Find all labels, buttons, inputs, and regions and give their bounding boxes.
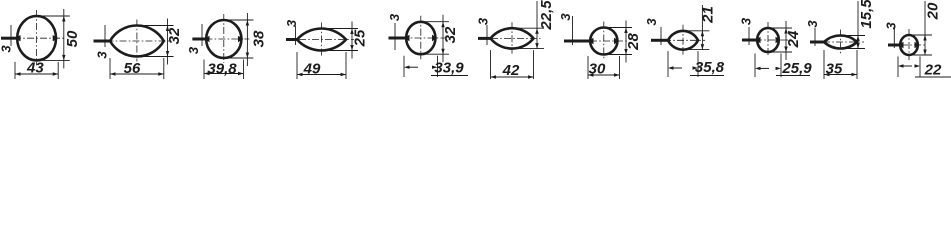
- svg-text:15,5: 15,5: [858, 0, 875, 29]
- section 7: left fairing tab: [588, 38, 594, 44]
- section 11: stem wire: [888, 44, 900, 47]
- section 1: height dimension 50: [41, 15, 70, 17]
- section 5: oval frame section outline: [406, 22, 435, 54]
- section 9: left fairing tab: [755, 37, 761, 43]
- section 9: horizontal centreline: [742, 39, 788, 41]
- section 1: stem wire: [1, 37, 17, 40]
- svg-text:56: 56: [124, 60, 141, 77]
- section 8: lens strut section outline: [668, 31, 698, 50]
- section 3: oval frame section outline: [206, 20, 241, 58]
- svg-text:25,9: 25,9: [781, 60, 812, 77]
- section 9: vertical centreline: [767, 22, 769, 57]
- section 3: right fairing tab: [238, 36, 244, 42]
- svg-text:35,8: 35,8: [695, 59, 725, 76]
- section 10: thickness dimension line 3: [814, 28, 816, 46]
- section 2: vertical centreline: [136, 20, 138, 62]
- svg-text:3: 3: [739, 17, 754, 25]
- section 1: vertical centreline: [36, 10, 38, 65]
- svg-text:32: 32: [442, 26, 459, 43]
- svg-text:3: 3: [95, 51, 110, 59]
- section 1: horizontal centreline: [1, 37, 66, 39]
- section 5: right fairing tab: [432, 35, 438, 41]
- section 9: stem wire: [742, 39, 757, 42]
- section 3: height dimension 38: [228, 19, 254, 21]
- svg-text:3: 3: [644, 18, 659, 26]
- section 8: width dimension 35,8: [667, 51, 669, 77]
- svg-text:24: 24: [785, 30, 802, 48]
- svg-text:50: 50: [64, 30, 81, 47]
- section 5: vertical centreline: [420, 16, 422, 60]
- svg-text:3: 3: [387, 13, 402, 21]
- section 4: height dimension 25: [326, 28, 359, 30]
- section 2: stem wire: [94, 40, 113, 43]
- svg-text:22: 22: [924, 62, 942, 79]
- section 10: stem wire: [810, 41, 826, 44]
- section 2: height dimension 32: [141, 25, 174, 27]
- svg-text:21: 21: [700, 6, 717, 24]
- section 10: horizontal centreline: [810, 41, 864, 43]
- section 9: oval frame section outline: [757, 28, 779, 52]
- section 9: width dimension 25,9: [754, 54, 756, 78]
- section 5: width dimension 33,9: [403, 56, 405, 77]
- section 10: width dimension 35: [823, 50, 825, 79]
- section 6: thickness dimension line 3: [486, 25, 488, 45]
- section 11: thickness dimension line 3: [893, 26, 895, 48]
- svg-text:30: 30: [589, 61, 606, 78]
- section 10: height dimension 15,5: [845, 35, 866, 37]
- section 1: left fairing tab: [15, 35, 21, 41]
- section 1: width dimension 43: [14, 62, 16, 79]
- svg-text:25: 25: [352, 29, 369, 47]
- svg-text:3: 3: [558, 13, 573, 21]
- section 6: width dimension 42: [490, 50, 492, 79]
- section 5: height dimension 32: [425, 21, 449, 23]
- section 8: thickness dimension line 3: [660, 27, 662, 45]
- section 7: vertical centreline: [603, 22, 605, 60]
- section 11: horizontal centreline: [888, 44, 927, 46]
- svg-text:28: 28: [625, 33, 642, 51]
- section 3: vertical centreline: [223, 14, 225, 63]
- section 5: horizontal centreline: [389, 37, 446, 39]
- section 7: thickness dimension line 3: [572, 16, 574, 45]
- section 11: width dimension 22: [897, 57, 899, 78]
- section 2: horizontal centreline: [94, 40, 170, 42]
- svg-text:3: 3: [284, 19, 299, 27]
- section 6: stem wire: [478, 37, 493, 40]
- section 3: width dimension 39,8: [203, 60, 205, 80]
- svg-text:35: 35: [826, 61, 843, 78]
- section 3: horizontal centreline: [192, 38, 249, 40]
- svg-text:3: 3: [186, 46, 201, 54]
- section 11: right fairing tab: [915, 42, 921, 48]
- section 5: stem wire: [389, 37, 407, 40]
- section 6: horizontal centreline: [478, 37, 541, 39]
- svg-text:3: 3: [0, 45, 14, 53]
- section 2: width dimension 56: [109, 58, 111, 79]
- svg-text:3: 3: [805, 20, 820, 28]
- section 4: stem wire: [286, 38, 299, 41]
- section 11: height dimension 20: [913, 34, 932, 36]
- section 6: height dimension 22,5: [516, 27, 544, 29]
- svg-text:49: 49: [303, 61, 321, 78]
- section 3: left fairing tab: [204, 36, 210, 42]
- section 10: vertical centreline: [840, 30, 842, 54]
- svg-text:22,5: 22,5: [538, 0, 555, 31]
- section 5: thickness dimension line 3: [394, 23, 396, 50]
- svg-text:43: 43: [26, 60, 44, 77]
- section 8: stem wire: [651, 39, 670, 42]
- section 1: oval frame section outline: [17, 16, 56, 60]
- section 5: left fairing tab: [404, 35, 410, 41]
- section 4: horizontal centreline: [286, 39, 354, 41]
- section 11: vertical centreline: [908, 29, 910, 60]
- section 7: oval frame section outline: [590, 28, 617, 55]
- section 7: width dimension 30: [587, 56, 589, 79]
- section 6: vertical centreline: [511, 22, 513, 53]
- section 7: height dimension 28: [608, 27, 632, 29]
- section 10: lens strut section outline: [824, 36, 857, 49]
- section 1: right fairing tab: [53, 35, 59, 41]
- section 2: thickness dimension line 3: [104, 25, 106, 47]
- section 7: right fairing tab: [614, 38, 620, 44]
- section 2: lens strut section outline: [110, 26, 164, 57]
- section 11: left fairing tab: [898, 42, 904, 48]
- section 7: horizontal centreline: [564, 40, 628, 42]
- section 8: horizontal centreline: [651, 39, 705, 41]
- section 8: height dimension 21: [687, 30, 709, 32]
- section 9: right fairing tab: [776, 37, 782, 43]
- section 11: oval frame section outline: [900, 35, 918, 55]
- section 4: width dimension 49: [296, 52, 298, 79]
- section 1: thickness dimension line 3: [10, 25, 12, 46]
- section 9: thickness dimension line 3: [748, 27, 750, 45]
- svg-text:3: 3: [476, 17, 491, 25]
- section 3: thickness dimension line 3: [201, 24, 203, 46]
- section 4: vertical centreline: [321, 23, 323, 56]
- svg-text:39,8: 39,8: [207, 61, 237, 78]
- section 7: stem wire: [564, 40, 590, 43]
- section 3: stem wire: [192, 38, 206, 41]
- svg-text:33,9: 33,9: [434, 60, 464, 77]
- svg-text:32: 32: [166, 27, 183, 44]
- svg-text:38: 38: [251, 30, 268, 47]
- svg-text:3: 3: [884, 22, 899, 30]
- section 8: vertical centreline: [682, 25, 684, 55]
- svg-text:20: 20: [925, 2, 942, 20]
- section 9: height dimension 24: [772, 27, 792, 29]
- svg-text:42: 42: [502, 62, 520, 79]
- section 4: thickness dimension line 3: [295, 26, 297, 45]
- section 6: lens strut section outline: [491, 28, 534, 48]
- section 4: lens strut section outline: [297, 29, 346, 51]
